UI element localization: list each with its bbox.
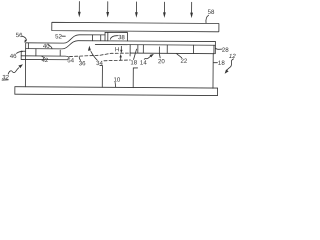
left pedestal right edge	[100, 66, 103, 88]
flex upper surface	[26, 34, 105, 43]
label 18 right	[214, 60, 226, 67]
stack lower-left edge	[20, 51, 22, 59]
die divider 3	[166, 45, 168, 53]
force arrow 5	[190, 2, 193, 18]
svg-text:52: 52	[55, 33, 62, 40]
stack bottom line	[21, 58, 68, 60]
label 38	[110, 34, 125, 41]
bond terminal 38 box	[105, 32, 127, 41]
stack mid band divider 2	[59, 50, 61, 56]
die divider 4	[192, 45, 194, 53]
stack mid band divider 1	[35, 49, 37, 56]
svg-text:22: 22	[180, 58, 187, 65]
svg-text:40: 40	[43, 43, 50, 50]
svg-text:18: 18	[218, 60, 225, 67]
svg-text:14: 14	[140, 60, 147, 67]
svg-text:46: 46	[10, 53, 17, 60]
label 58	[206, 9, 215, 23]
label 42	[41, 56, 49, 64]
pad divider b	[100, 35, 102, 41]
dashed reference line lower	[104, 60, 130, 61]
svg-text:58: 58	[208, 9, 215, 16]
svg-text:20: 20	[158, 58, 165, 65]
label 32	[2, 64, 23, 81]
label 18 left	[130, 49, 138, 66]
die row bottom line	[130, 52, 214, 55]
label 14	[140, 54, 154, 67]
force arrow 2	[106, 2, 109, 18]
svg-text:18: 18	[130, 59, 137, 66]
label 52	[55, 33, 65, 40]
right pedestal right edge	[212, 54, 214, 89]
svg-text:38: 38	[118, 34, 125, 41]
label 34	[88, 46, 104, 67]
force arrow 4	[163, 2, 166, 18]
right pedestal left edge	[133, 68, 137, 88]
label 56	[16, 32, 27, 43]
label 20	[158, 47, 166, 65]
die divider 2	[142, 45, 144, 53]
bond box inner tick	[107, 32, 109, 40]
dimension H down arrow	[120, 46, 122, 53]
force arrow 3	[135, 2, 138, 18]
stack line 4 + hook 54	[21, 56, 69, 58]
label 28	[216, 47, 230, 54]
dimension H up arrow	[119, 54, 121, 60]
svg-text:36: 36	[79, 60, 86, 67]
press plate 58	[52, 22, 219, 31]
stack top band divider	[27, 43, 29, 49]
label 40	[43, 43, 52, 50]
svg-text:42: 42	[42, 57, 49, 64]
label 46	[10, 51, 23, 60]
dashed reference line upper	[69, 53, 130, 57]
die row left edge	[129, 45, 131, 56]
carrier top layer bottom line	[95, 43, 215, 46]
svg-text:H: H	[115, 46, 119, 53]
label 22	[177, 54, 188, 65]
svg-text:10: 10	[114, 77, 121, 84]
label 36	[79, 57, 86, 67]
svg-text:54: 54	[67, 57, 74, 64]
pad divider a	[91, 35, 93, 41]
label 10	[113, 77, 120, 88]
base plate 10	[15, 87, 218, 96]
stack left ledge tick	[21, 50, 25, 52]
carrier right edge	[214, 42, 216, 54]
flex lower surface	[26, 40, 216, 50]
force arrow 1	[78, 2, 81, 18]
label 12	[225, 53, 237, 74]
die row right edge	[213, 45, 215, 53]
left pedestal left edge	[24, 43, 26, 87]
die divider 1	[137, 45, 139, 53]
svg-text:56: 56	[16, 32, 23, 39]
